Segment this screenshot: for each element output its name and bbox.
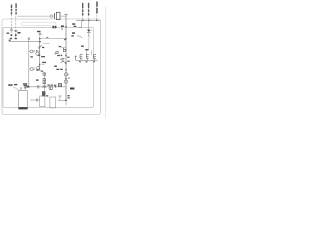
rail R-main top tick [64,13,68,15]
wire mid bus [27,86,67,88]
wire collector bus [40,38,66,40]
label G1 [7,33,10,34]
label C [96,2,98,7]
capacitor CE2 [86,55,89,61]
capacitor C1 plates on lead IN1 [10,28,13,30]
terminal circle T1 [50,15,52,17]
label under IN2 [15,38,17,39]
rail R-left2 [39,39,41,71]
label near J13 [67,95,69,96]
label Q3 foot [56,69,59,70]
label IN2 [15,3,16,8]
terminal circle K2 [64,80,67,83]
label 3L [52,26,54,28]
junction cross J12 [36,98,38,103]
wire crystal output [60,15,66,17]
capacitor CC4 [42,86,46,87]
label C7 [54,85,56,86]
rail R-led [28,41,30,86]
trimmer C-var [56,51,59,54]
node stub S1 with terminal circle [28,39,30,42]
node B dashed lead [88,3,90,21]
label IN1 [11,5,12,9]
junction dot J8 [65,55,67,57]
outer drawing frame [2,19,100,115]
wire supply drop [78,20,81,27]
label left port [8,84,12,86]
tick above CEL2 [58,95,62,97]
page edge artifact [105,6,107,118]
diode D1 [87,30,90,32]
wire bottom right [58,99,66,101]
transistor Q2 strokes [63,48,66,52]
label VCC2 [74,26,77,27]
label A [82,3,83,8]
junction dot J13 [65,100,67,102]
tick on cap CEL1 top [43,94,45,96]
label under CE1 [79,61,81,62]
label D2 [30,56,33,57]
junction dot J7 [65,38,67,40]
wire antenna drop [39,35,41,41]
tick marks K [68,76,70,78]
junction dot J9 [39,64,41,66]
wire Q1 base [43,43,49,45]
node IN2 dashed lead [15,3,17,40]
tick right of K1 [68,74,69,76]
label n8 [70,88,74,90]
polarized electrode blob on lead IN1 [11,34,13,36]
transistor Q4 [37,66,40,69]
label battery [23,83,27,84]
rail R-main [65,14,67,100]
label between caps [46,95,48,96]
battery BT1 bottom bar [18,107,27,109]
label Q2 [57,55,60,56]
node IN1 dashed lead [10,5,12,40]
label ANT [37,31,41,32]
resistor RC3 [43,82,46,84]
label Cn [81,46,84,47]
inner shield box frame [3,27,93,107]
component dark block [58,83,61,86]
label mixer with leader [71,35,73,36]
wire rail jog [40,71,45,73]
junction square J1 [9,40,11,42]
battery BT1 body [19,91,28,108]
junction dot J3 [65,26,67,28]
node C lead [96,2,98,20]
label Q4 [41,71,43,72]
label RC [47,85,50,86]
crystal X1 electrode [53,13,55,19]
capacitor CE3 [94,55,97,61]
label REG [72,32,75,34]
junction dot J6 [39,38,41,40]
label Q1 name [38,55,40,56]
label Q2 type [59,46,62,47]
junction dot J4 [82,20,84,22]
connector blob [24,86,26,87]
crystal X2 body dark [42,91,45,96]
transistor Q5 [49,86,53,90]
junction dot J15 [28,86,30,88]
wire rail to frame [65,100,67,105]
node A dashed lead [82,3,84,21]
transistor Q1 [36,52,39,55]
transistor Q1 collector tick [40,45,42,47]
junction dot J2 [39,41,41,43]
label 1M [17,32,20,34]
electrolytic cap CEL1 [40,96,45,107]
oscillator sub-box [22,22,56,26]
label c4 smudge [46,37,48,38]
wire bottom left [30,99,40,101]
label Q1 value [42,47,44,48]
label p8 [67,61,69,62]
wire crystal input [17,15,50,17]
terminal circle K1 [64,73,67,76]
wire diode branch [88,20,90,29]
label under CE3 [93,61,95,62]
pin speck rail66 b [65,62,67,63]
crystal X1 body [56,12,60,19]
leader line [13,87,19,91]
label VCC [72,23,75,25]
wire stub E2 [90,50,92,55]
marks near J7 [64,39,66,40]
capacitor C-mid plates [37,85,39,88]
wire stub right [42,63,45,65]
capacitor CE1 [80,55,83,61]
junction dot J5 [88,20,90,22]
label L1 [61,25,64,27]
label under IN1 [10,38,12,39]
junction dot J11 [65,78,67,80]
wire top-right bus [76,19,100,21]
transistor Q2 base wire [61,46,66,48]
junction dot J14 [96,20,98,22]
rail R-chain [43,72,45,91]
wire stub E1 [85,51,87,56]
capacitor CT plate [75,56,77,60]
wire bus1 [10,40,41,42]
label B [88,3,89,8]
label Q1 base R [36,50,37,51]
LED D3 [30,68,33,71]
battery BT1 terminal stubs [20,89,22,91]
resistor R-zig [88,33,89,37]
junction dot J10 [55,86,57,88]
pin speck rail40 [39,46,41,47]
polarized electrode blob on lead IN2 [15,34,17,36]
label under CE2 [85,61,87,62]
pin speck rail66 a [65,49,67,50]
label R5 [54,66,57,67]
antenna symbol [39,33,42,36]
label D3 [36,69,39,70]
label R9 [36,79,39,80]
label e smudge [55,53,56,54]
label NE2 [42,62,46,63]
transistor Q3 [60,58,66,63]
resistor RC2 [43,79,46,81]
label 1ln [85,49,88,50]
wire diode to cap [88,37,90,49]
LED D2 [30,50,33,53]
wire E bus [76,59,98,61]
capacitor C2 plates on lead IN2 [14,29,17,31]
label NE1 [41,56,45,57]
resistor RC1 [43,73,46,75]
electrolytic cap CEL2 [50,97,56,108]
